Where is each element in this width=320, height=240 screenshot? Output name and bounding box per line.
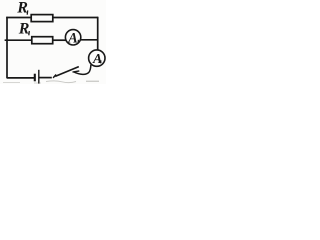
ammeter A1 circle (middle branch) [65, 30, 80, 45]
wire left vertical [6, 17, 8, 79]
svg-text:A: A [67, 30, 77, 46]
wire battery to switch [40, 77, 52, 79]
wire middle branch left [5, 39, 33, 41]
svg-text:A: A [92, 51, 102, 66]
label R1 subscript [26, 10, 29, 14]
scan noise bottom [3, 82, 20, 84]
svg-text:R: R [18, 21, 30, 38]
resistor R1 (top branch) [31, 15, 53, 22]
wire top branch right [53, 17, 98, 19]
wire ammeter A1 to right vertical [80, 39, 98, 41]
battery positive plate (long thin) [38, 70, 40, 84]
wire bottom left [7, 77, 34, 79]
wire right vertical [97, 17, 99, 51]
battery negative plate (short thick) [34, 74, 36, 82]
switch right contact [73, 71, 80, 72]
switch blade [55, 67, 79, 77]
wire middle branch to ammeter [53, 39, 67, 41]
label A1 subscript [77, 40, 79, 44]
resistor R2 (middle branch) [32, 37, 53, 44]
label A2 subscript [100, 60, 102, 63]
ammeter A2 circle (bottom right) [89, 50, 105, 66]
svg-text:R: R [16, 0, 28, 17]
label R2 subscript [28, 31, 31, 35]
switch left contact [53, 75, 56, 78]
wire top branch left [6, 17, 31, 19]
wire switch to ammeter A2 [74, 65, 91, 75]
